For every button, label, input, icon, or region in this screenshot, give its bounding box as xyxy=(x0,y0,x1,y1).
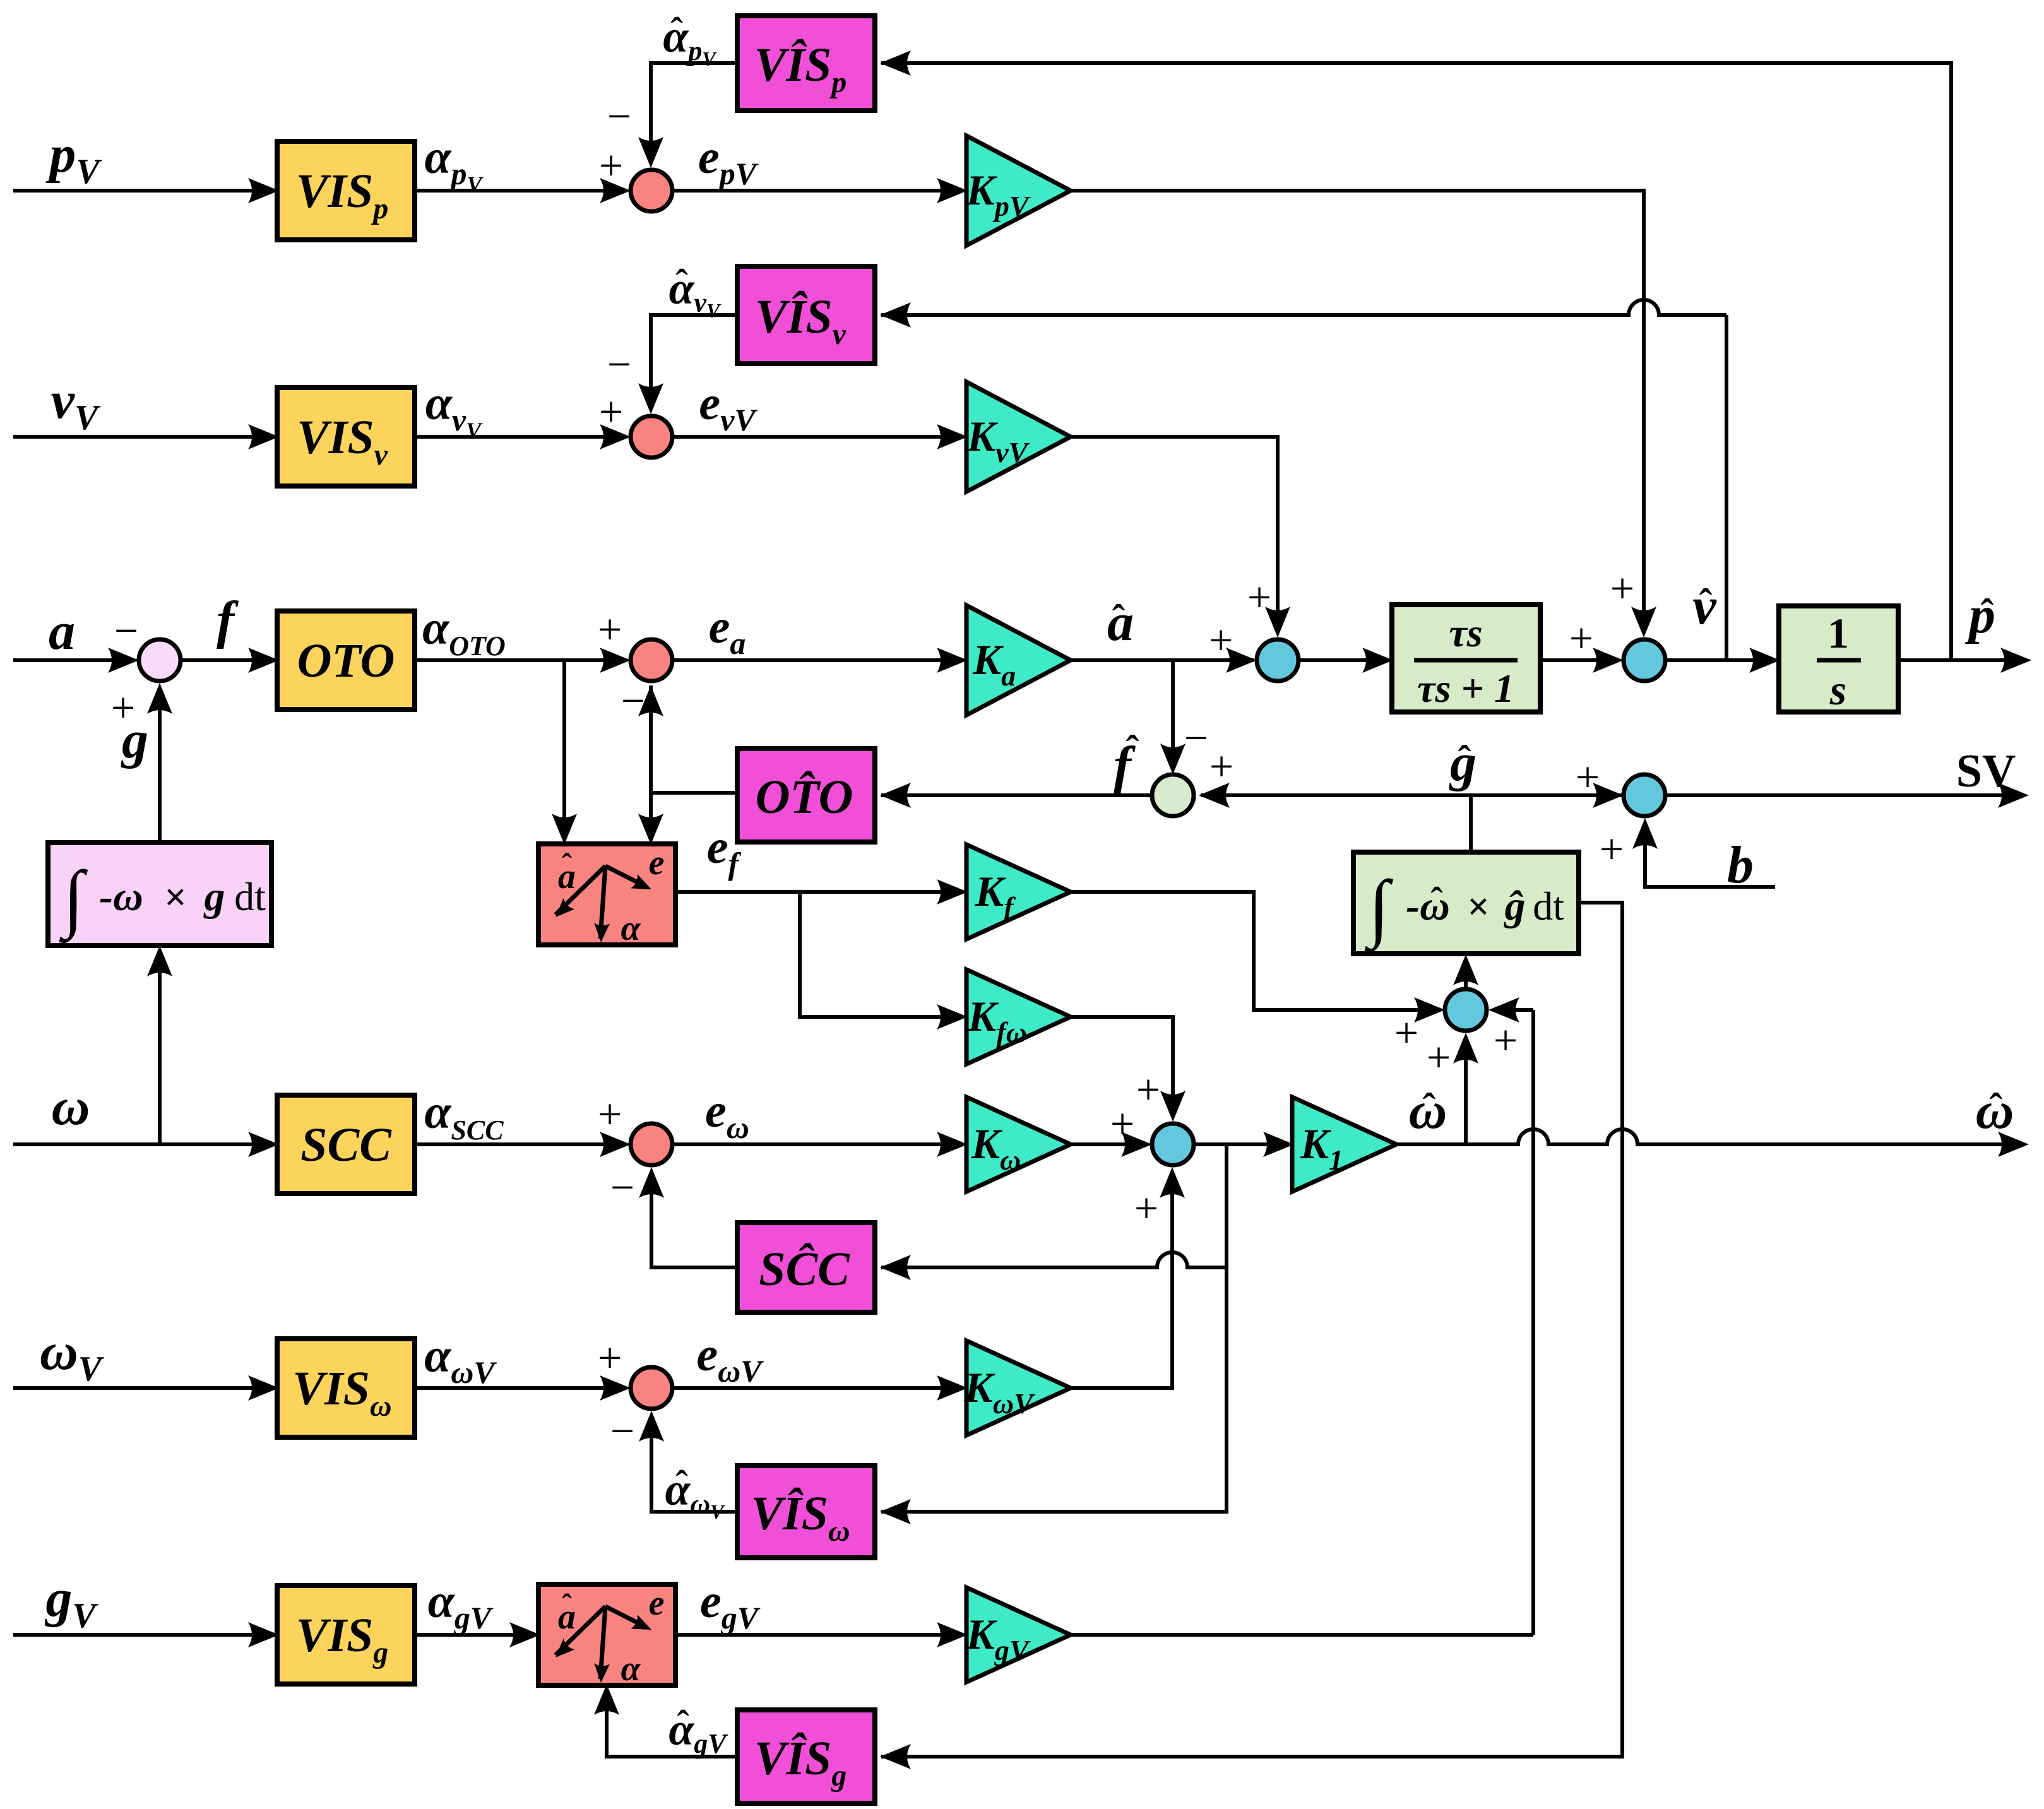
svg-text:ˆ: ˆ xyxy=(1699,582,1713,625)
block VISg-hat xyxy=(737,1710,875,1803)
svg-text:dt: dt xyxy=(234,874,266,919)
svg-text:+: + xyxy=(1394,1009,1418,1057)
wire SV output xyxy=(1665,793,2023,797)
svg-text:OT̂O: OT̂O xyxy=(756,771,853,824)
svg-text:SV: SV xyxy=(1956,745,2016,797)
svg-text:ĝ: ĝ xyxy=(1504,883,1526,929)
block SCC xyxy=(277,1095,415,1194)
svg-text:ˆ: ˆ xyxy=(677,1703,689,1744)
wire e_f : axes box to Kf with branch xyxy=(675,890,963,894)
gain K1 xyxy=(1292,1097,1396,1192)
svg-text:-ω: -ω xyxy=(1406,883,1450,929)
wire integral-g-hat box output down to VISg-hat xyxy=(881,903,1622,1757)
svg-text:g: g xyxy=(203,874,225,920)
wire p-hat feedback to VISp-hat xyxy=(881,63,1951,660)
wire alpha_vV : VISv to sum2 xyxy=(415,435,625,439)
wire KvV output down to sum B1 xyxy=(1071,437,1278,631)
svg-text:+: + xyxy=(1134,1184,1158,1232)
svg-text:+: + xyxy=(598,1334,622,1382)
svg-text:+: + xyxy=(1569,614,1593,662)
svg-text:τs: τs xyxy=(1449,610,1482,655)
wire e_pV : sum1 to KpV xyxy=(672,189,963,193)
wire omega-hat output with hops xyxy=(1396,1129,2023,1144)
wire e_omega : sum to K-omega xyxy=(672,1142,963,1146)
sum circle B-omega blue xyxy=(1152,1124,1194,1165)
block OTO-hat xyxy=(737,749,875,842)
sum circle e_a xyxy=(631,639,672,681)
block coordinate-transform axes 2 xyxy=(538,1584,675,1685)
svg-text:+: + xyxy=(1110,1100,1134,1148)
svg-text:ˆ: ˆ xyxy=(1126,728,1139,771)
sum circle f-hat pale green xyxy=(1152,774,1194,816)
wire g : integral-g box up to pink sum bottom xyxy=(158,687,162,843)
wire branch down to SCC-hat and VIS-omega-hat xyxy=(881,1144,1227,1512)
wire branch omega up into integral-g box bottom xyxy=(158,952,162,1144)
svg-text:dt: dt xyxy=(1533,884,1564,928)
svg-text:−: − xyxy=(610,1163,634,1211)
wire alpha_pV : VISp to sum1 xyxy=(415,189,625,193)
wire B-omega to K1 with branch down xyxy=(1194,1142,1289,1146)
svg-text:−: − xyxy=(610,1407,634,1455)
block SCC-hat xyxy=(737,1223,875,1312)
wire alpha_omegaV to sum xyxy=(415,1386,625,1390)
wire f : pink sum to OTO xyxy=(181,658,272,662)
sum circle B1 blue xyxy=(1257,639,1298,681)
svg-text:+: + xyxy=(1494,1016,1518,1064)
wire a input to pink sum xyxy=(13,658,134,662)
wire omegaV input xyxy=(13,1386,272,1390)
svg-text:ˆ: ˆ xyxy=(1458,738,1471,781)
wire a-hat : Ka to sum B1 with branch to f-hat circle xyxy=(1071,658,1254,662)
wire alpha_OTO : OTO to sum3 with branch xyxy=(415,658,625,662)
sum circle vV xyxy=(631,416,672,458)
sum circle SV blue xyxy=(1624,774,1665,816)
svg-text:α: α xyxy=(621,1649,641,1688)
svg-text:ˆ: ˆ xyxy=(670,10,682,51)
svg-text:ˆ: ˆ xyxy=(1112,598,1126,641)
svg-text:ˆ: ˆ xyxy=(1981,592,1994,635)
gain Kf-omega xyxy=(966,970,1071,1064)
svg-text:SCC: SCC xyxy=(300,1118,392,1171)
wire K-omegaV output up to B-omega bottom xyxy=(1071,1171,1172,1388)
wire g-hat line between f-hat circle and SV sum xyxy=(1201,793,1622,797)
wire VISp-hat output to sum1 top xyxy=(651,63,737,163)
svg-text:+: + xyxy=(1610,564,1634,612)
block 1/s xyxy=(1779,606,1898,712)
block VISp-hat xyxy=(737,16,875,110)
sum circle e_omega xyxy=(631,1124,672,1165)
svg-text:1: 1 xyxy=(1827,609,1849,657)
block VISg xyxy=(277,1586,415,1684)
svg-text:−: − xyxy=(621,677,645,725)
svg-text:+: + xyxy=(599,388,623,436)
svg-text:a: a xyxy=(49,602,75,661)
wire alpha_SCC : SCC to sum-omega xyxy=(415,1142,625,1146)
wire K_fomega output down to sum B-omega top xyxy=(1071,1017,1173,1117)
wire VISv-hat output to sum2 top xyxy=(651,315,737,409)
wire OTO-hat output junction to sum3 bottom and axes box xyxy=(651,791,736,795)
wire 1/s output p-hat with branch xyxy=(1898,658,2025,662)
svg-text:ˆ: ˆ xyxy=(562,1588,572,1622)
svg-text:−: − xyxy=(1184,714,1208,762)
svg-text:+: + xyxy=(1209,742,1233,790)
wire g-hat branch down to integral-g-hat box top xyxy=(1469,795,1473,851)
svg-text:ˆ: ˆ xyxy=(675,262,687,303)
block integral -omega-hat x g-hat dt xyxy=(1353,852,1579,954)
block VISp xyxy=(277,141,415,240)
wire branch e_f down to K_fomega xyxy=(800,892,963,1017)
wire KpV output down to sum B2 xyxy=(1071,191,1644,631)
svg-text:−: − xyxy=(607,340,631,388)
sum circle B2 blue xyxy=(1624,639,1665,681)
gain Ka xyxy=(966,605,1071,715)
svg-text:g: g xyxy=(121,711,148,769)
block VISv-hat xyxy=(737,266,875,364)
sum circle e_omegaV xyxy=(631,1367,672,1409)
svg-text:+: + xyxy=(1247,573,1271,621)
svg-text:+: + xyxy=(598,1090,622,1138)
wire gV input xyxy=(13,1633,272,1637)
wire alpha_gV to axes box 2 xyxy=(415,1633,534,1637)
wire pV input xyxy=(13,189,272,193)
wire tau-s box to sum B2 xyxy=(1540,658,1619,662)
svg-text:τs + 1: τs + 1 xyxy=(1417,666,1514,711)
gain KvV xyxy=(966,382,1071,492)
svg-text:+: + xyxy=(1600,825,1624,873)
block coordinate-transform axes 1 xyxy=(538,844,675,945)
svg-text:e: e xyxy=(649,843,665,882)
svg-text:−: − xyxy=(607,92,631,140)
wire v-hat feedback to VISv-hat with hop xyxy=(1725,315,1728,660)
block tau-s / tau-s+1 xyxy=(1392,605,1540,712)
sum circle a-g pink xyxy=(139,639,181,681)
svg-text:OTO: OTO xyxy=(297,634,395,687)
sum circle pV xyxy=(631,170,672,211)
wire Kf output to sum B36 xyxy=(1071,892,1439,1010)
wire e_vV : sum2 to KvV xyxy=(672,435,963,439)
wire b input to SV sum xyxy=(1645,843,1775,887)
wire SCC-hat output to sum-omega bottom xyxy=(651,1171,736,1267)
svg-text:SĈC: SĈC xyxy=(759,1243,850,1296)
svg-text:+: + xyxy=(1576,753,1600,801)
wire KgV feedback up into B36 right side xyxy=(1069,1633,1533,1637)
block VISv xyxy=(277,388,415,486)
block VIS-omega xyxy=(277,1339,415,1437)
wire B36 to integral box bottom xyxy=(1464,960,1468,989)
svg-text:ω: ω xyxy=(52,1077,90,1136)
gain K-omega xyxy=(966,1097,1071,1192)
svg-text:+: + xyxy=(1209,616,1233,664)
wire e_gV : axes box 2 to KgV xyxy=(675,1633,961,1637)
wire branch alpha_OTO down into axes box xyxy=(562,660,566,839)
svg-text:+: + xyxy=(598,605,622,653)
svg-text:+: + xyxy=(1427,1033,1451,1081)
wire B2 to 1/s box with v-hat branch xyxy=(1665,658,1775,662)
wire e_omegaV to K-omegaV xyxy=(672,1386,963,1390)
gain KpV xyxy=(966,136,1071,246)
wire B1 to tau-s box xyxy=(1298,658,1388,662)
gain KgV xyxy=(966,1587,1071,1682)
svg-text:ˆ: ˆ xyxy=(1423,1086,1436,1129)
wire vV input xyxy=(13,435,272,439)
svg-text:e: e xyxy=(649,1584,665,1623)
wire omega-hat branch up into B36 bottom xyxy=(1464,1038,1468,1144)
wire branch a-hat down to f-hat circle xyxy=(1171,660,1175,769)
svg-text:ˆ: ˆ xyxy=(1990,1086,2003,1129)
svg-text:×: × xyxy=(1467,886,1489,928)
svg-text:ˆ: ˆ xyxy=(1430,880,1442,921)
svg-text:+: + xyxy=(1136,1065,1160,1113)
gain Kf xyxy=(966,845,1071,939)
svg-text:ˆ: ˆ xyxy=(562,848,572,881)
wire omega input with branch up to integral-g box xyxy=(13,1142,272,1146)
wire VISg-hat output up into axes box 2 bottom xyxy=(607,1690,736,1757)
svg-text:b: b xyxy=(1727,836,1754,894)
gain K-omegaV xyxy=(966,1341,1071,1435)
wire SCC-hat input tap with hop xyxy=(881,1252,1227,1267)
svg-text:α: α xyxy=(621,909,641,948)
sum circle B36 blue xyxy=(1445,989,1487,1031)
wire VIS-omega-hat output to sum bottom xyxy=(651,1415,736,1512)
svg-text:-ω: -ω xyxy=(99,874,143,920)
wire f-hat : circle to OTO-hat box xyxy=(881,793,1152,797)
svg-text:s: s xyxy=(1829,666,1846,714)
wire e_a : sum3 to Ka xyxy=(672,658,963,662)
svg-text:−: − xyxy=(114,607,138,655)
block integral -omega x g dt xyxy=(48,843,271,946)
block OTO xyxy=(277,611,415,709)
svg-text:×: × xyxy=(164,876,186,919)
block VIS-omega-hat xyxy=(737,1466,875,1558)
svg-text:+: + xyxy=(599,141,623,189)
svg-text:ˆ: ˆ xyxy=(675,1463,687,1504)
wire K-omega to sum B-omega xyxy=(1071,1142,1146,1146)
